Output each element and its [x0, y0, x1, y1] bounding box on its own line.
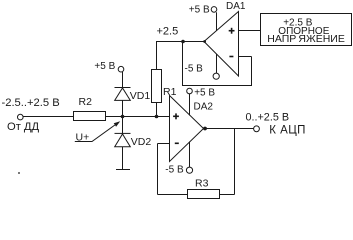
svg-text:-2.5..+2.5 В: -2.5..+2.5 В	[2, 97, 60, 109]
svg-text:VD1: VD1	[130, 90, 151, 102]
svg-text:-5 В: -5 В	[165, 165, 184, 176]
svg-text:+5 В: +5 В	[189, 4, 210, 15]
svg-text:0..+2.5 В: 0..+2.5 В	[246, 111, 290, 123]
svg-text:R1: R1	[163, 86, 177, 98]
svg-text:-5 В: -5 В	[185, 64, 204, 75]
svg-text:DA1: DA1	[226, 1, 246, 12]
svg-text:+5 В: +5 В	[194, 88, 215, 99]
svg-text:К АЦП: К АЦП	[269, 125, 306, 137]
svg-text:От ДД: От ДД	[7, 121, 40, 133]
svg-text:VD2: VD2	[131, 136, 152, 148]
svg-text:U+: U+	[76, 131, 90, 143]
svg-text:+2.5: +2.5	[157, 25, 179, 37]
svg-text:R3: R3	[195, 178, 209, 190]
svg-text:+5 В: +5 В	[94, 61, 115, 72]
svg-text:НАПР ЯЖЕНИЕ: НАПР ЯЖЕНИЕ	[267, 33, 345, 45]
svg-text:R2: R2	[79, 96, 93, 108]
svg-text:DA2: DA2	[194, 102, 214, 113]
